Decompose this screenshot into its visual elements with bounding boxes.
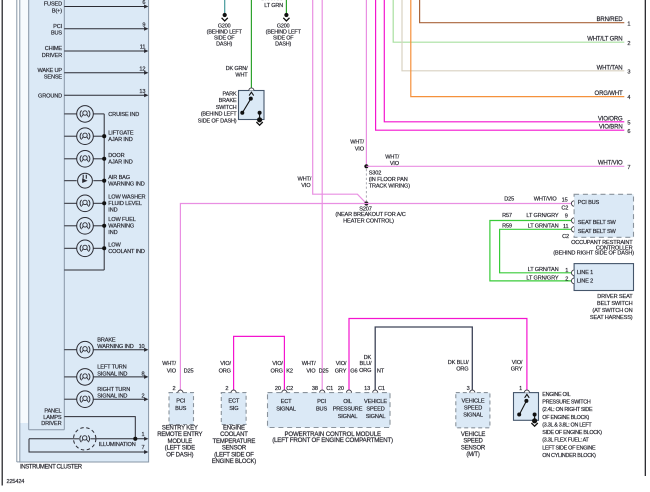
svg-text:C2: C2 <box>562 234 569 240</box>
svg-text:COOLANT: COOLANT <box>220 432 248 438</box>
svg-text:(IN FLOOR PAN: (IN FLOOR PAN <box>369 177 408 183</box>
svg-text:3: 3 <box>627 69 630 75</box>
svg-text:FUSED: FUSED <box>44 2 62 8</box>
page border right <box>644 0 646 476</box>
cluster pin 9 wire (PCI BUS) <box>64 28 147 30</box>
svg-text:DK GRN/: DK GRN/ <box>261 0 283 2</box>
instrument cluster box <box>20 0 149 462</box>
svg-text:LOW: LOW <box>108 243 121 249</box>
wire ORG/WHT pin 4 <box>411 0 625 97</box>
svg-text:VIO/: VIO/ <box>512 360 523 366</box>
svg-text:LT GRN/TAN: LT GRN/TAN <box>528 267 559 273</box>
svg-text:WHT/TAN: WHT/TAN <box>597 65 623 71</box>
svg-text:BELT SWITCH: BELT SWITCH <box>597 301 633 307</box>
svg-text:SENTRY KEY: SENTRY KEY <box>162 426 198 432</box>
svg-text:ORG: ORG <box>219 368 231 374</box>
svg-text:LOW WASHER: LOW WASHER <box>108 194 145 200</box>
svg-text:SEAT HARNESS): SEAT HARNESS) <box>590 315 633 321</box>
svg-text:7: 7 <box>627 165 630 171</box>
svg-text:WHT/: WHT/ <box>385 154 399 160</box>
svg-text:ORG: ORG <box>456 367 468 373</box>
svg-text:(3.3L & 3.8L: ON LEFT: (3.3L & 3.8L: ON LEFT <box>542 422 592 428</box>
svg-text:DASH): DASH) <box>216 41 232 47</box>
svg-text:RIGHT TURN: RIGHT TURN <box>97 387 130 393</box>
svg-text:PARK: PARK <box>223 92 237 98</box>
svg-text:MODULE: MODULE <box>168 439 193 445</box>
illumination wire pin 1 <box>29 438 147 440</box>
svg-text:ENGINE OIL: ENGINE OIL <box>542 392 570 398</box>
wire DK BLU/ORG vehicle speed sensor to PCM <box>375 327 472 390</box>
svg-text:PRESSURE: PRESSURE <box>333 406 363 412</box>
svg-text:VIO/: VIO/ <box>336 361 347 367</box>
svg-text:1: 1 <box>519 386 522 392</box>
svg-text:2: 2 <box>627 41 630 47</box>
wire VIO/ORG ECT sensor to PCM <box>234 336 285 389</box>
svg-text:LT GRN/TAN: LT GRN/TAN <box>528 223 559 229</box>
svg-text:ORG: ORG <box>271 368 283 374</box>
park brake switch ground <box>257 117 262 122</box>
svg-text:DK GRN/: DK GRN/ <box>226 66 248 72</box>
svg-text:LINE 2: LINE 2 <box>577 279 593 285</box>
svg-text:ENGINE BLOCK): ENGINE BLOCK) <box>212 459 257 465</box>
svg-text:(LEFT SIDE OF: (LEFT SIDE OF <box>214 452 254 458</box>
svg-text:PCI BUS: PCI BUS <box>578 200 600 206</box>
illumination lamp <box>74 428 96 450</box>
cluster internal label box <box>28 0 30 430</box>
svg-text:LIFTGATE: LIFTGATE <box>108 131 134 137</box>
svg-text:20: 20 <box>275 386 281 392</box>
wire DK GRN/LT GRN to G200 (right) <box>285 0 287 13</box>
svg-text:ECT: ECT <box>281 399 292 405</box>
svg-text:8: 8 <box>142 371 145 377</box>
svg-text:SIDE OF DASH): SIDE OF DASH) <box>198 118 237 124</box>
svg-text:WAKE UP: WAKE UP <box>37 68 62 74</box>
wire WHT/TAN pin 3 <box>402 0 624 71</box>
svg-text:SPEED: SPEED <box>464 406 482 412</box>
junction panel lamps/illumination <box>133 437 137 441</box>
svg-text:SPEED: SPEED <box>366 406 384 412</box>
cluster pin 13 wire (GROUND) <box>64 94 147 96</box>
svg-text:WHT/: WHT/ <box>302 361 316 367</box>
svg-text:SIGNAL: SIGNAL <box>338 414 358 420</box>
svg-text:PANEL: PANEL <box>44 408 61 414</box>
svg-text:S302: S302 <box>369 171 382 177</box>
svg-text:K2: K2 <box>286 368 293 374</box>
svg-text:SIGNAL: SIGNAL <box>463 413 483 419</box>
svg-text:(BEHIND RIGHT SIDE OF DASH): (BEHIND RIGHT SIDE OF DASH) <box>553 250 634 256</box>
svg-text:C1: C1 <box>326 386 333 392</box>
svg-text:AIR BAG: AIR BAG <box>108 175 130 181</box>
wire WHT/LT GRN pin 2 <box>393 0 624 42</box>
svg-text:38: 38 <box>312 386 318 392</box>
svg-text:SENSOR: SENSOR <box>461 445 486 451</box>
svg-text:DRIVER: DRIVER <box>42 53 62 59</box>
svg-text:10: 10 <box>139 344 145 350</box>
svg-text:(LEFT SIDE: (LEFT SIDE <box>165 446 195 452</box>
wire LT GRN/TAN seat belt sw pin 11 <box>500 229 572 272</box>
svg-text:BUS: BUS <box>316 406 327 412</box>
svg-text:WHT/LT GRN: WHT/LT GRN <box>587 37 622 43</box>
svg-text:SIGNAL IND: SIGNAL IND <box>97 394 127 400</box>
svg-text:IND: IND <box>108 208 117 214</box>
svg-text:VIO: VIO <box>167 368 177 374</box>
svg-text:B(+): B(+) <box>52 9 62 15</box>
svg-text:TRACK WIRING): TRACK WIRING) <box>369 184 411 190</box>
svg-text:WARNING: WARNING <box>108 224 134 230</box>
svg-text:GROUND: GROUND <box>38 93 62 99</box>
svg-text:9: 9 <box>565 214 568 220</box>
svg-text:OF DASH): OF DASH) <box>166 452 193 458</box>
svg-text:DRIVER: DRIVER <box>41 421 61 427</box>
svg-text:OIL: OIL <box>343 399 352 405</box>
svg-text:3: 3 <box>467 386 470 392</box>
svg-text:5: 5 <box>627 120 630 126</box>
indicator lamp: DOOR AJAR IND <box>64 158 76 160</box>
indicator lamp: RIGHT TURN SIGNAL IND pin 2 <box>64 398 76 400</box>
svg-text:WHT/: WHT/ <box>297 177 311 183</box>
svg-text:1: 1 <box>565 268 568 274</box>
svg-text:225424: 225424 <box>7 479 25 485</box>
svg-text:AJAR IND: AJAR IND <box>108 137 132 143</box>
svg-text:VEHICLE: VEHICLE <box>461 432 485 438</box>
svg-text:WHT/: WHT/ <box>162 361 176 367</box>
wire VIO/GRY oil pressure switch to PCM <box>349 319 527 390</box>
park brake switch <box>239 91 265 120</box>
driver seat belt switch box <box>574 264 633 291</box>
wire WHT/VIO pin 7 <box>366 165 624 167</box>
svg-text:PRESSURE SWITCH: PRESSURE SWITCH <box>542 399 591 405</box>
instrument cluster outer edge line <box>16 0 18 462</box>
svg-text:(NEAR BREAKOUT FOR A/C: (NEAR BREAKOUT FOR A/C <box>335 212 405 218</box>
svg-text:11: 11 <box>563 224 569 230</box>
svg-text:ON CYLINDER BLOCK): ON CYLINDER BLOCK) <box>542 453 596 459</box>
svg-text:BLU/: BLU/ <box>360 361 372 367</box>
svg-text:(BEHIND LEFT: (BEHIND LEFT <box>201 112 238 118</box>
svg-text:SIGNAL IND: SIGNAL IND <box>97 371 127 377</box>
svg-text:BRAKE: BRAKE <box>97 337 116 343</box>
svg-text:D25: D25 <box>504 196 514 202</box>
wire BRN/RED pin 1 <box>420 0 625 23</box>
svg-text:VIO/: VIO/ <box>220 361 231 367</box>
svg-text:HEATER CONTROL): HEATER CONTROL) <box>343 219 394 225</box>
svg-text:INSTRUMENT CLUSTER: INSTRUMENT CLUSTER <box>20 465 83 471</box>
svg-text:FLUID LEVEL: FLUID LEVEL <box>108 201 142 207</box>
svg-text:PCI: PCI <box>317 399 326 405</box>
wire LT GRN/GRY seat belt sw pin 9 <box>490 221 571 281</box>
svg-text:VEHICLE: VEHICLE <box>364 399 387 405</box>
svg-text:VIO: VIO <box>301 183 311 189</box>
junction <box>102 134 106 138</box>
svg-text:C2: C2 <box>561 206 568 212</box>
svg-text:DK: DK <box>364 355 372 361</box>
wire WHT/VIO from top to S302 <box>365 0 367 167</box>
svg-text:7: 7 <box>142 445 145 451</box>
svg-text:R57: R57 <box>502 213 512 219</box>
svg-text:LEFT SIDE OF ENGINE: LEFT SIDE OF ENGINE <box>542 445 596 451</box>
svg-text:BRAKE: BRAKE <box>219 98 237 104</box>
svg-text:AJAR IND: AJAR IND <box>108 160 132 166</box>
vehicle speed sensor box <box>456 393 490 428</box>
svg-text:D25: D25 <box>184 368 194 374</box>
svg-text:SENSOR: SENSOR <box>222 446 247 452</box>
wire VIO/BRN pin 6 <box>376 0 625 130</box>
svg-text:ORG/WHT: ORG/WHT <box>595 91 623 97</box>
indicator lamp: BRAKE WARNING IND pin 10 <box>64 349 76 351</box>
svg-text:IND: IND <box>108 230 117 236</box>
junction <box>102 201 106 205</box>
svg-text:20: 20 <box>338 386 344 392</box>
svg-text:GRY: GRY <box>335 368 347 374</box>
powertrain control module box <box>268 393 391 428</box>
svg-text:BRN/RED: BRN/RED <box>597 17 624 23</box>
svg-text:WHT/VIO: WHT/VIO <box>598 161 623 167</box>
svg-text:C2: C2 <box>286 386 293 392</box>
ground G200 (right) <box>284 13 288 17</box>
svg-text:VIO: VIO <box>390 161 400 167</box>
junction <box>102 246 106 250</box>
svg-text:SEAT BELT SW: SEAT BELT SW <box>578 220 617 226</box>
sentry key remote entry module box <box>169 393 194 425</box>
indicator lamp: CRUISE IND <box>64 113 76 115</box>
svg-text:WHT/: WHT/ <box>350 139 364 145</box>
svg-text:9: 9 <box>142 22 145 28</box>
svg-text:DASH): DASH) <box>275 41 291 47</box>
svg-text:VEHICLE: VEHICLE <box>462 399 485 405</box>
svg-text:ORG: ORG <box>359 368 371 374</box>
svg-text:PCI: PCI <box>53 24 62 30</box>
splice S207 <box>364 201 368 205</box>
svg-text:SEAT BELT SW: SEAT BELT SW <box>578 229 617 235</box>
indicator lamp: AIR BAG WARNING IND <box>64 180 76 182</box>
svg-text:LT GRN: LT GRN <box>264 3 283 9</box>
svg-text:CHIME: CHIME <box>45 46 63 52</box>
engine coolant temperature sensor box <box>221 393 246 425</box>
svg-text:DK BLU/: DK BLU/ <box>448 360 469 366</box>
svg-text:WHT: WHT <box>235 73 248 79</box>
svg-text:WARNING IND: WARNING IND <box>108 182 144 188</box>
svg-text:REMOTE ENTRY: REMOTE ENTRY <box>157 432 202 438</box>
wire WHT/VIO S207 to sentry key module <box>180 204 366 390</box>
svg-text:ECT: ECT <box>228 398 239 404</box>
svg-text:CRUISE IND: CRUISE IND <box>108 112 139 118</box>
svg-text:VIO/ORG: VIO/ORG <box>598 116 623 122</box>
svg-text:1: 1 <box>627 21 630 27</box>
lamp group right bus wire <box>103 114 105 270</box>
svg-text:SIGNAL: SIGNAL <box>276 406 296 412</box>
svg-text:13: 13 <box>364 386 370 392</box>
wire DK GRN/WHT to park brake switch <box>250 0 252 88</box>
svg-text:NT: NT <box>377 368 385 374</box>
svg-text:C1: C1 <box>378 386 385 392</box>
svg-text:13: 13 <box>139 89 145 95</box>
wire WHT/VIO from top to PCM pin 38 <box>321 0 323 390</box>
junction <box>102 157 106 161</box>
svg-text:(3.3L FLEX FUEL: AT: (3.3L FLEX FUEL: AT <box>542 438 589 444</box>
indicator lamp: LOW WASHER FLUID LEVEL IND <box>64 202 76 204</box>
svg-text:VIO: VIO <box>355 146 365 152</box>
svg-text:GRY: GRY <box>511 367 523 373</box>
lamp group bottom return wire <box>64 269 104 271</box>
svg-text:SIG: SIG <box>229 406 238 412</box>
svg-text:D25: D25 <box>319 368 329 374</box>
svg-text:1: 1 <box>142 432 145 438</box>
svg-text:LOW FUEL: LOW FUEL <box>108 217 135 223</box>
page border left <box>1 0 3 486</box>
junction <box>102 179 106 183</box>
wire WHT/VIO from top to S207 <box>313 0 367 204</box>
svg-text:(2.4L: ON RIGHT SIDE: (2.4L: ON RIGHT SIDE <box>542 407 593 413</box>
svg-text:LT GRN/GRY: LT GRN/GRY <box>526 213 558 219</box>
svg-text:6: 6 <box>142 0 145 6</box>
svg-text:SWITCH: SWITCH <box>216 105 237 111</box>
splice S302 <box>364 164 368 168</box>
svg-text:LT GRN/GRY: LT GRN/GRY <box>526 276 558 282</box>
svg-text:R59: R59 <box>502 223 512 229</box>
svg-text:WARNING IND: WARNING IND <box>97 344 133 350</box>
svg-text:LINE 1: LINE 1 <box>577 270 593 276</box>
svg-text:PCI: PCI <box>176 398 185 404</box>
svg-text:2: 2 <box>225 386 228 392</box>
svg-text:OF ENGINE BLOCK): OF ENGINE BLOCK) <box>542 415 589 421</box>
svg-text:WHT/VIO: WHT/VIO <box>534 196 558 202</box>
svg-text:2: 2 <box>565 277 568 283</box>
indicator lamp: LEFT TURN SIGNAL IND pin 8 <box>64 376 76 378</box>
engine oil pressure switch box <box>514 393 539 421</box>
svg-text:VIO/BRN: VIO/BRN <box>599 125 623 131</box>
oil pressure switch ground <box>532 418 537 423</box>
svg-text:SPEED: SPEED <box>463 439 483 445</box>
svg-text:TEMPERATURE: TEMPERATURE <box>213 439 256 445</box>
svg-text:12: 12 <box>139 66 145 72</box>
svg-text:6: 6 <box>627 129 630 135</box>
svg-text:VIO/: VIO/ <box>272 361 283 367</box>
svg-text:BUS: BUS <box>51 31 62 37</box>
svg-text:4: 4 <box>627 95 630 101</box>
occupant restraint controller box <box>574 194 633 237</box>
cluster pin 12 wire (WAKE UP SENSE) <box>64 72 147 74</box>
svg-text:VIO: VIO <box>306 368 316 374</box>
wire VIO/ORG pin 5 <box>384 0 624 122</box>
indicator lamp: LOW FUEL WARNING IND <box>64 225 76 227</box>
svg-text:15: 15 <box>562 197 568 203</box>
svg-text:SENSE: SENSE <box>44 75 63 81</box>
svg-text:2: 2 <box>142 394 145 400</box>
ground wire to G200 (left) <box>224 0 226 13</box>
svg-text:DRIVER SEAT: DRIVER SEAT <box>597 294 633 300</box>
svg-text:LEFT TURN: LEFT TURN <box>97 365 126 371</box>
svg-text:2: 2 <box>173 386 176 392</box>
cluster pin 11 wire (CHIME DRIVER) <box>64 50 147 52</box>
ground G200 (left) <box>223 13 227 17</box>
cluster pin 6 wire (FUSED B(+)) <box>64 6 147 8</box>
svg-text:SIDE OF ENGINE BLOCK): SIDE OF ENGINE BLOCK) <box>542 430 602 436</box>
svg-text:COOLANT IND: COOLANT IND <box>108 249 145 255</box>
svg-text:ILLUMINATION: ILLUMINATION <box>99 442 136 448</box>
junction <box>102 224 106 228</box>
cluster connector strip <box>20 0 28 423</box>
svg-text:(LEFT FRONT OF ENGINE COMPARTM: (LEFT FRONT OF ENGINE COMPARTMENT) <box>272 437 393 444</box>
svg-text:11: 11 <box>140 45 146 51</box>
svg-text:ENGINE: ENGINE <box>223 426 245 432</box>
svg-text:(AT SWITCH ON: (AT SWITCH ON <box>592 308 632 314</box>
panel lamps driver wire <box>64 417 135 439</box>
wire WHT/VIO S207 to occupant restraint controller pin 15 <box>366 203 571 205</box>
indicator lamp: LIFTGATE AJAR IND <box>64 135 76 137</box>
illumination return wire pin 7 <box>29 439 147 452</box>
svg-text:SIGNAL: SIGNAL <box>366 414 386 420</box>
svg-text:DOOR: DOOR <box>108 153 124 159</box>
svg-text:G6: G6 <box>350 368 357 374</box>
svg-text:(M/T): (M/T) <box>466 452 480 458</box>
indicator lamp: LOW COOLANT IND <box>64 247 76 249</box>
svg-text:BUS: BUS <box>175 406 186 412</box>
dashed link S302 to S207 <box>365 169 367 201</box>
